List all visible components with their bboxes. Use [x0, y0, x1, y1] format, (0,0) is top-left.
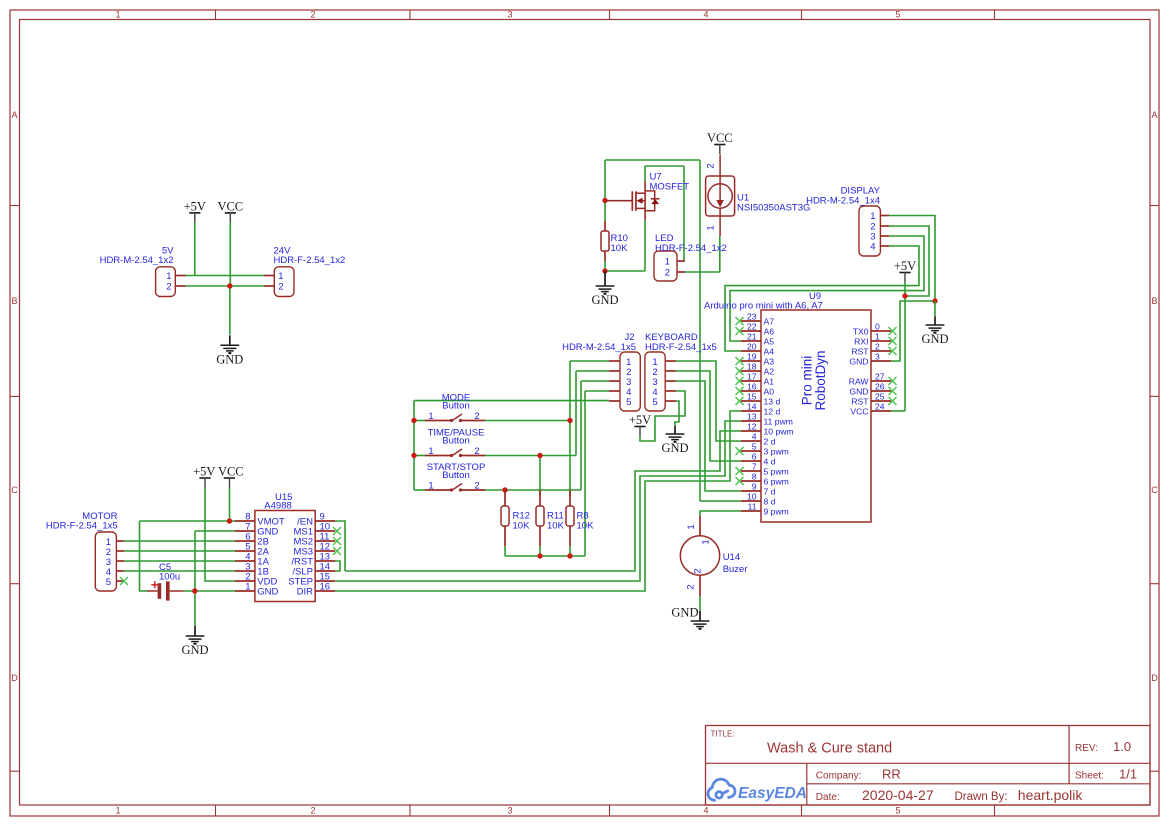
svg-text:GND: GND	[216, 352, 243, 366]
wire R10 bottom	[604, 261, 606, 271]
wire +5V to KEYBOARD pin4	[640, 391, 685, 441]
wire EN net to 10pwm	[345, 431, 741, 571]
junction +5V node	[902, 293, 907, 298]
svg-text:1.0: 1.0	[1113, 739, 1131, 754]
svg-text:3 pwm: 3 pwm	[764, 447, 789, 457]
connector 24V HDR-F-2.54_1x2	[264, 246, 345, 297]
wire VCC to VMOT	[229, 488, 231, 522]
svg-text:1: 1	[245, 582, 250, 593]
switch MODE Button	[425, 393, 485, 423]
connector KEYBOARD HDR-F-2.54_1x5	[645, 332, 717, 411]
ground GND (mosfet)	[591, 271, 618, 307]
svg-text:5: 5	[626, 397, 631, 408]
junction VCC/VMOT	[227, 518, 232, 523]
wire R8 bottom	[569, 546, 571, 556]
svg-text:2: 2	[686, 584, 697, 589]
svg-text:HDR-F-2.54_1x5: HDR-F-2.54_1x5	[46, 521, 118, 532]
svg-text:TITLE:: TITLE:	[711, 730, 735, 739]
wire TIME to R11	[539, 456, 541, 497]
wire to J2 pin4	[585, 390, 609, 392]
svg-text:RST: RST	[851, 397, 869, 407]
wire	[414, 420, 425, 422]
transistor U7 MOSFET	[605, 172, 689, 221]
svg-text:1: 1	[428, 411, 433, 422]
svg-text:7 d: 7 d	[764, 487, 776, 497]
svg-text:B: B	[11, 296, 17, 306]
junction R10 bottom/GND	[602, 268, 607, 273]
svg-text:Date:: Date:	[816, 792, 840, 803]
wire pin1 row 5V-24V	[186, 275, 265, 277]
svg-text:17: 17	[747, 372, 757, 382]
svg-text:+5V: +5V	[894, 259, 916, 273]
svg-text:1: 1	[428, 446, 433, 457]
svg-text:Sheet:: Sheet:	[1075, 771, 1104, 782]
power symbol VCC (U15)	[218, 465, 244, 488]
wire to ground symbol	[934, 301, 936, 317]
svg-text:2: 2	[693, 568, 704, 573]
svg-text:Button: Button	[442, 470, 469, 481]
svg-text:MOSFET: MOSFET	[650, 182, 690, 193]
svg-text:A: A	[1151, 110, 1157, 120]
svg-text:VCC: VCC	[217, 199, 243, 213]
svg-text:1: 1	[875, 332, 880, 342]
wire to J2 pin3	[581, 380, 609, 382]
power symbol VCC (left)	[217, 199, 243, 222]
wire drain to LED	[645, 165, 684, 167]
svg-text:1: 1	[115, 806, 120, 816]
wire +5V to CN1 pin1	[194, 222, 196, 275]
svg-text:5: 5	[895, 10, 900, 20]
wire pin2 row 5V-24V	[186, 285, 265, 287]
resistor R8 10K	[566, 490, 594, 546]
wire gate to 8d top run	[605, 159, 700, 161]
wire source to gnd node	[605, 270, 645, 272]
svg-text:4: 4	[752, 432, 757, 442]
svg-text:VCC: VCC	[850, 407, 868, 417]
svg-text:C: C	[11, 485, 18, 495]
ground GND (keyboard)	[661, 426, 688, 455]
svg-text:100u: 100u	[159, 571, 180, 582]
wire 8d horizontal	[700, 500, 741, 502]
wire U1 pin1 down	[719, 236, 721, 272]
svg-text:21: 21	[747, 332, 757, 342]
svg-text:1: 1	[428, 481, 433, 492]
svg-text:27: 27	[875, 372, 885, 382]
wire J2 pin2 / TIME	[575, 371, 577, 456]
resistor R11 10K	[536, 490, 565, 546]
no-connect marks U15	[333, 527, 341, 555]
svg-text:6 pwm: 6 pwm	[764, 477, 789, 487]
svg-text:1: 1	[706, 225, 717, 230]
svg-text:Wash & Cure stand: Wash & Cure stand	[767, 741, 892, 757]
svg-text:10K: 10K	[611, 243, 629, 254]
wire +5V to VDD	[205, 488, 235, 582]
svg-text:DIR: DIR	[297, 587, 314, 598]
power symbol VCC (U1)	[707, 131, 733, 154]
svg-text:VCC: VCC	[707, 131, 733, 145]
svg-text:RAW: RAW	[849, 377, 870, 387]
svg-text:2: 2	[310, 10, 315, 20]
svg-text:RST: RST	[851, 347, 869, 357]
svg-text:Button: Button	[442, 436, 469, 447]
svg-text:GND: GND	[591, 293, 618, 307]
wire button common vertical	[413, 401, 415, 490]
svg-text:4: 4	[703, 10, 708, 20]
svg-text:A1: A1	[764, 377, 775, 387]
svg-text:C: C	[1151, 485, 1158, 495]
svg-text:B: B	[1151, 296, 1157, 306]
svg-text:12 d: 12 d	[764, 407, 781, 417]
svg-text:5: 5	[106, 577, 111, 588]
svg-text:Arduino pro mini with A6, A7: Arduino pro mini with A6, A7	[704, 301, 823, 312]
svg-text:20: 20	[747, 342, 757, 352]
junction MODE/R8/J2-1	[567, 418, 572, 423]
svg-text:A2: A2	[764, 367, 775, 377]
svg-text:24: 24	[875, 402, 885, 412]
wire buzzer to GND	[699, 596, 701, 612]
svg-text:11: 11	[748, 502, 757, 512]
svg-text:Company:: Company:	[816, 771, 862, 782]
svg-text:A0: A0	[764, 387, 775, 397]
svg-text:GND: GND	[661, 441, 688, 455]
wire buzzer to 9pwm	[700, 511, 741, 516]
svg-text:4 d: 4 d	[764, 457, 776, 467]
svg-text:10K: 10K	[547, 521, 565, 532]
junction GND node	[932, 298, 937, 303]
svg-text:A5: A5	[764, 337, 775, 347]
wire to J2 pin2	[576, 370, 609, 372]
svg-text:+5V: +5V	[184, 199, 206, 213]
svg-text:HDR-F-2.54_1x2: HDR-F-2.54_1x2	[655, 243, 727, 254]
svg-text:GND: GND	[671, 606, 698, 620]
power symbol +5V (U15)	[193, 465, 215, 488]
svg-text:1: 1	[701, 539, 712, 544]
svg-text:2: 2	[166, 282, 171, 293]
wire down to GND	[229, 286, 231, 335]
svg-text:1/1: 1/1	[1119, 767, 1137, 782]
svg-text:16: 16	[320, 582, 331, 593]
svg-text:2: 2	[706, 163, 717, 168]
svg-text:2: 2	[665, 268, 670, 279]
svg-text:2: 2	[474, 411, 479, 422]
capacitor C5 100u	[147, 562, 184, 601]
svg-text:9 pwm: 9 pwm	[764, 507, 789, 517]
ground GND (display)	[921, 317, 948, 347]
svg-text:18: 18	[747, 362, 757, 372]
svg-text:Drawn By:: Drawn By:	[955, 791, 1008, 803]
svg-text:23: 23	[747, 312, 757, 322]
svg-text:GND: GND	[921, 332, 948, 346]
svg-text:9: 9	[752, 482, 757, 492]
wire DISPLAY1 to GND node	[889, 216, 935, 302]
ground GND (U15)	[181, 626, 208, 657]
svg-text:GND: GND	[257, 587, 278, 598]
wire	[414, 455, 425, 457]
power symbol +5V (left)	[184, 199, 206, 222]
svg-text:8: 8	[752, 472, 757, 482]
wire STEP to 11pwm	[335, 421, 741, 581]
wire KEYBOARD1 to 2d	[676, 361, 741, 441]
no-connect marks U9	[736, 317, 897, 485]
junction C5/GND	[192, 588, 197, 593]
svg-text:Button: Button	[442, 401, 469, 412]
svg-text:0: 0	[875, 322, 880, 332]
driver U15 A4988	[235, 492, 335, 602]
connector MOTOR HDR-F-2.54_1x5	[46, 511, 125, 591]
svg-text:2: 2	[875, 342, 880, 352]
svg-text:RXI: RXI	[854, 337, 868, 347]
wire 2A	[124, 550, 235, 552]
svg-text:HDR-M-2.54_1x2: HDR-M-2.54_1x2	[100, 255, 174, 266]
wire 1A	[124, 560, 235, 562]
wire R12 bottom	[504, 546, 506, 556]
svg-text:+5V: +5V	[629, 413, 651, 427]
junction buttons/MODE	[411, 418, 416, 423]
wire J2 pin3 / START	[580, 381, 582, 490]
resistor R12 10K	[501, 490, 530, 546]
wire DISPLAY4 to A4	[725, 246, 919, 351]
svg-text:14: 14	[747, 402, 757, 412]
wire to J2 pin1	[570, 360, 609, 362]
connector J2 HDR-M-2.54_1x5	[562, 332, 640, 411]
svg-text:2: 2	[278, 282, 283, 293]
svg-text:Buzer: Buzer	[723, 564, 748, 575]
wire GND7 down	[194, 531, 196, 591]
svg-text:GND: GND	[849, 357, 868, 367]
svg-text:1: 1	[870, 211, 875, 222]
svg-text:3: 3	[507, 806, 512, 816]
wire VCC down to pin2 net	[229, 222, 231, 286]
wire gate vertical	[604, 160, 606, 221]
svg-text:2 d: 2 d	[764, 437, 776, 447]
svg-text:26: 26	[875, 382, 885, 392]
wire GND7 row	[195, 530, 235, 532]
junction R8 bottom	[567, 553, 572, 558]
wire /EN down	[335, 521, 345, 571]
svg-text:22: 22	[747, 322, 757, 332]
wire START to net	[485, 489, 582, 491]
svg-text:D: D	[11, 673, 18, 683]
svg-text:D: D	[1151, 673, 1158, 683]
svg-text:RobotDyn: RobotDyn	[813, 350, 828, 410]
svg-text:3: 3	[875, 352, 880, 362]
wire VMOT to C5	[140, 521, 148, 591]
svg-text:TX0: TX0	[853, 327, 869, 337]
svg-text:A7: A7	[764, 317, 775, 327]
svg-text:7: 7	[752, 462, 757, 472]
svg-text:GND: GND	[181, 643, 208, 657]
junction buttons/TIME	[411, 453, 416, 458]
svg-text:10 pwm: 10 pwm	[764, 427, 794, 437]
svg-text:2: 2	[474, 446, 479, 457]
svg-text:1: 1	[686, 524, 697, 529]
junction START/R12	[502, 487, 507, 492]
wire button common to J2 pin5	[414, 400, 609, 402]
svg-text:EasyEDA: EasyEDA	[738, 785, 807, 802]
power symbol +5V (keyboard)	[629, 413, 651, 436]
regulator U1 NSI50350AST3G	[706, 155, 811, 237]
svg-text:VCC: VCC	[218, 465, 244, 479]
svg-text:+5V: +5V	[193, 465, 215, 479]
svg-text:U14: U14	[723, 552, 740, 563]
svg-text:19: 19	[747, 352, 757, 362]
wire VCC pin stub run	[891, 410, 905, 412]
wire source down	[644, 220, 646, 271]
svg-text:13 d: 13 d	[764, 397, 781, 407]
svg-text:GND: GND	[849, 387, 868, 397]
wire resistor bottom net	[505, 555, 585, 557]
svg-text:10: 10	[747, 492, 757, 502]
svg-text:6: 6	[752, 452, 757, 462]
wire DISPLAY3 to A5	[730, 236, 924, 341]
svg-text:A: A	[11, 110, 17, 120]
svg-text:10K: 10K	[577, 521, 595, 532]
svg-text:3: 3	[507, 10, 512, 20]
wire down to LED pin1	[683, 166, 685, 261]
wire MODE to net	[485, 420, 571, 422]
wire U9 GND to ground	[891, 301, 935, 361]
wire R11 bottom	[539, 546, 541, 556]
svg-text:5: 5	[895, 806, 900, 816]
mcu U9 Arduino pro mini	[704, 291, 891, 522]
switch TIME/PAUSE Button	[425, 428, 485, 458]
svg-text:HDR-M-2.54_1x4: HDR-M-2.54_1x4	[806, 196, 880, 207]
svg-text:25: 25	[875, 392, 885, 402]
svg-text:8 d: 8 d	[764, 497, 776, 507]
wire KEYBOARD2 to 4d	[676, 371, 741, 461]
svg-text:11 pwm: 11 pwm	[764, 417, 793, 427]
wire KEYBOARD3 to 7d	[676, 381, 741, 491]
svg-text:5: 5	[752, 442, 757, 452]
svg-text:REV:: REV:	[1075, 743, 1098, 754]
svg-text:HDR-M-2.54_1x5: HDR-M-2.54_1x5	[562, 342, 636, 353]
svg-text:5: 5	[652, 397, 657, 408]
svg-text:13: 13	[747, 412, 757, 422]
svg-text:A6: A6	[764, 327, 775, 337]
svg-text:A4988: A4988	[264, 501, 291, 512]
wire J2 pin4 / R net	[584, 391, 586, 556]
svg-text:A4: A4	[764, 347, 775, 357]
connector DISPLAY HDR-M-2.54_1x4	[806, 186, 889, 257]
svg-text:2: 2	[310, 806, 315, 816]
svg-text:1: 1	[115, 10, 120, 20]
svg-text:NSI50350AST3G: NSI50350AST3G	[737, 203, 810, 214]
wire KEYBOARD pin5 to GND	[675, 401, 679, 426]
svg-text:15: 15	[747, 392, 757, 402]
svg-text:5 pwm: 5 pwm	[764, 467, 789, 477]
wire DIR to 12d	[335, 411, 741, 591]
wire +5V to VCC pin	[904, 282, 906, 411]
svg-text:A3: A3	[764, 357, 775, 367]
junction gate/R10	[602, 198, 607, 203]
ground GND (left power)	[216, 335, 243, 366]
wire	[414, 489, 425, 491]
resistor R10 10K	[601, 221, 628, 261]
wire 2B	[124, 540, 235, 542]
wire 1B	[124, 570, 235, 572]
wire drain up	[644, 166, 646, 182]
junction pin2/GND/VCC	[227, 283, 232, 288]
wire TIME to net	[485, 455, 577, 457]
wire J2 pin1 / MODE / R8	[569, 361, 571, 496]
svg-text:16: 16	[747, 382, 757, 392]
svg-text:4: 4	[870, 242, 875, 253]
svg-text:2: 2	[474, 481, 479, 492]
svg-text:2020-04-27: 2020-04-27	[862, 787, 934, 803]
buzzer U14 Buzer	[680, 516, 747, 596]
svg-text:1: 1	[278, 271, 283, 282]
connector LED HDR-F-2.54_1x2	[654, 233, 727, 281]
svg-text:heart.polik: heart.polik	[1018, 787, 1084, 803]
ground GND (buzzer)	[671, 606, 709, 630]
svg-text:1: 1	[665, 257, 670, 268]
wire to GND symbol	[194, 591, 196, 626]
wire VMOT row	[140, 520, 236, 522]
wire DISPLAY2 to +5V node	[889, 226, 929, 296]
svg-text:12: 12	[747, 422, 757, 432]
wire /RST to /SLP bracket	[335, 561, 340, 571]
junction TIME/R11	[537, 453, 542, 458]
no-connect MOTOR pin5	[120, 577, 128, 585]
svg-text:10K: 10K	[513, 521, 531, 532]
svg-text:HDR-F-2.54_1x5: HDR-F-2.54_1x5	[645, 342, 717, 353]
wire LED pin2 to U1	[685, 271, 720, 273]
power symbol +5V (display)	[894, 259, 916, 282]
wire GND1 row	[184, 590, 235, 592]
svg-text:RR: RR	[882, 767, 901, 782]
svg-text:HDR-F-2.54_1x2: HDR-F-2.54_1x2	[274, 255, 346, 266]
switch START/STOP Button	[425, 462, 485, 492]
connector 5V HDR-M-2.54_1x2	[100, 246, 186, 297]
svg-text:1: 1	[166, 271, 171, 282]
wire net 8d long vertical	[699, 160, 701, 501]
svg-text:4: 4	[703, 806, 708, 816]
junction R11 bottom	[537, 553, 542, 558]
